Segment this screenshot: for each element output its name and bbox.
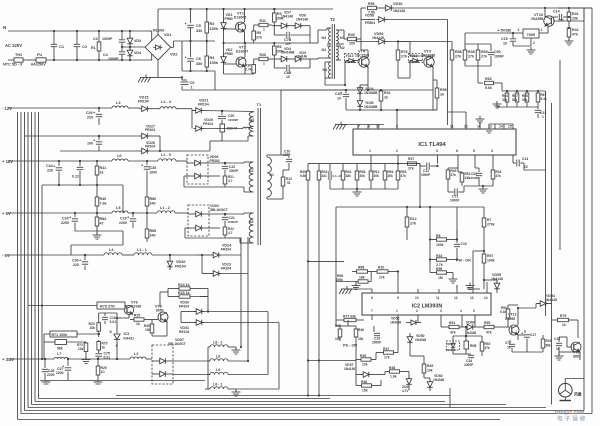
resistor R24 [168, 283, 200, 290]
pin 15 [508, 124, 513, 129]
svg-text:N2: N2 [340, 46, 345, 50]
resistor R75 [97, 333, 108, 353]
resistor R39 [356, 354, 376, 367]
resistor R68 [352, 266, 372, 280]
pin 10 [376, 124, 380, 129]
resistor R52b [480, 336, 490, 356]
wire [508, 305, 536, 325]
resistor R45c [335, 324, 342, 341]
wire [150, 54, 152, 60]
resistor R64 [502, 90, 509, 107]
svg-text:R73 27K: R73 27K [100, 305, 115, 309]
diode VD53 [424, 374, 444, 391]
capacitor C17 [518, 330, 536, 352]
resistor R50 [500, 305, 510, 327]
transformer T1 winding N1 [267, 157, 274, 197]
pin 14 [499, 124, 504, 129]
capacitor C75 [95, 352, 110, 360]
wire [551, 103, 553, 304]
svg-text:R26: R26 [260, 53, 267, 57]
inductor L1-5 [158, 153, 176, 161]
svg-text:4.7V: 4.7V [402, 389, 409, 393]
resistor R56b [430, 267, 453, 280]
svg-text:6: 6 [456, 149, 458, 153]
svg-text:10000P: 10000P [228, 118, 238, 122]
svg-text:N2: N2 [322, 48, 327, 52]
svg-text:FR804: FR804 [365, 21, 375, 25]
wire [182, 40, 208, 71]
svg-text:N: N [3, 25, 6, 30]
svg-text:2SA958: 2SA958 [531, 17, 543, 21]
diode VD60 [465, 321, 481, 336]
wire [182, 86, 345, 90]
svg-text:1: 1 [542, 115, 544, 119]
svg-text:1: 1 [191, 86, 193, 90]
svg-text:10000P: 10000P [228, 220, 238, 224]
resistor R42a [341, 164, 351, 189]
wire [583, 8, 585, 411]
thermistor TH1 [3, 53, 23, 67]
wire [171, 41, 174, 47]
wire [160, 289, 208, 308]
wire [207, 297, 209, 313]
svg-text:51k: 51k [512, 98, 518, 102]
svg-text:6: 6 [371, 296, 373, 300]
svg-text:TH1: TH1 [15, 53, 22, 57]
svg-text:18k: 18k [359, 276, 365, 280]
resistor R60a [522, 90, 529, 107]
transistor VT12 [505, 313, 519, 336]
svg-text:1.8k: 1.8k [390, 375, 397, 379]
svg-text:100: 100 [349, 42, 355, 46]
zener ZD2 [385, 372, 412, 394]
svg-text:C34: C34 [46, 164, 53, 168]
svg-text:1N4048: 1N4048 [415, 338, 426, 342]
svg-text:R9: R9 [257, 31, 262, 35]
diode VD20 [192, 111, 243, 132]
svg-text:R11: R11 [260, 19, 266, 23]
svg-text:FR104: FR104 [221, 267, 231, 271]
svg-text:+ 5V: + 5V [2, 211, 11, 216]
resistor R76 [396, 40, 407, 78]
transistor VT2 E13007 [236, 46, 248, 68]
resistor R43 [317, 164, 327, 396]
wire [325, 62, 345, 85]
resistor R45 [348, 33, 362, 46]
diode VD7 [272, 11, 293, 29]
diode VD13 [345, 54, 359, 65]
wire [579, 352, 581, 360]
svg-text:1N4048: 1N4048 [446, 348, 457, 352]
diode VD21 [192, 99, 254, 114]
resistor R59 [433, 80, 447, 110]
capacitor C26 [86, 108, 102, 125]
resistor R28 [144, 320, 154, 337]
inductor L8-1b [205, 383, 236, 393]
diode VD37 [344, 360, 385, 378]
svg-text:3: 3 [436, 149, 438, 153]
wire [346, 109, 437, 111]
wire [116, 394, 450, 396]
pin 13 [488, 124, 495, 129]
svg-text:10k: 10k [335, 337, 341, 341]
svg-text:20k: 20k [374, 174, 380, 178]
svg-text:+ 3.3V: + 3.3V [2, 357, 14, 362]
svg-text:C6: C6 [196, 57, 201, 61]
label +5VSB [497, 28, 511, 33]
op-amp IC1 TL494 [353, 129, 516, 155]
wire [224, 42, 247, 64]
svg-text:12: 12 [454, 296, 458, 300]
svg-text:27k: 27k [401, 55, 407, 59]
svg-text:R10: R10 [378, 266, 384, 270]
svg-text:T2: T2 [330, 17, 336, 22]
diode VD58 [361, 14, 448, 126]
wire [24, 112, 26, 411]
net +5V [2, 211, 11, 216]
svg-text:R38: R38 [468, 50, 475, 54]
svg-text:VT12: VT12 [508, 313, 517, 317]
svg-text:.com: .com [573, 410, 585, 416]
wire [99, 313, 129, 327]
svg-text:+ 12V: + 12V [2, 159, 13, 164]
svg-text:R41: R41 [100, 166, 107, 170]
svg-text:2.7k: 2.7k [245, 68, 252, 72]
wire [157, 60, 159, 77]
svg-text:7: 7 [371, 309, 373, 313]
svg-text:VD58: VD58 [365, 14, 374, 18]
svg-text:VD60: VD60 [466, 321, 475, 325]
capacitor C1 [51, 31, 65, 60]
inductor L1-4 [148, 100, 177, 109]
wire [184, 161, 244, 187]
resistor R49 [422, 360, 433, 378]
capacitor C9 [181, 77, 195, 89]
diode VD27 [140, 125, 161, 139]
svg-text:10k: 10k [427, 369, 433, 373]
resistor R65b [476, 44, 487, 66]
svg-text:R44: R44 [436, 254, 442, 258]
wire [280, 90, 282, 155]
wire [34, 112, 36, 402]
svg-text:5.6k: 5.6k [300, 174, 306, 178]
resistor R63 [478, 77, 502, 90]
resistor R62 [464, 335, 477, 354]
resistor R72 [77, 342, 88, 356]
svg-text:N2: N2 [250, 118, 254, 122]
wire [559, 60, 561, 250]
resistor R38 [463, 44, 474, 66]
rectifier VD57 SBL1640CT [152, 338, 186, 384]
diode VD26 [60, 141, 210, 154]
pin 11b [436, 289, 440, 300]
wire [344, 61, 368, 87]
svg-text:1N4148: 1N4148 [281, 15, 293, 19]
diode VD31 [152, 315, 279, 336]
wire [336, 207, 457, 320]
capacitor C15 [501, 33, 531, 46]
pin 11 [450, 124, 454, 129]
svg-text:R57: R57 [487, 254, 493, 258]
pin 6 [456, 149, 458, 172]
resistor R69 [336, 272, 372, 284]
wire [502, 83, 546, 91]
resistor R38 [385, 366, 409, 379]
diode VD34 [357, 85, 378, 96]
wire [181, 70, 215, 90]
wire [8, 254, 104, 256]
wire [545, 91, 547, 316]
transformer T1 core [257, 102, 262, 245]
wire [158, 9, 333, 35]
svg-text:18k: 18k [346, 174, 352, 178]
svg-text:R84: R84 [100, 217, 107, 221]
svg-text:FW - OK: FW - OK [456, 259, 471, 263]
pin 5b [473, 309, 475, 327]
svg-text:RL206: RL206 [153, 29, 164, 33]
resistor R57 [473, 250, 495, 289]
resistor R52 [458, 172, 471, 186]
svg-text:PS - ON: PS - ON [343, 344, 357, 348]
svg-text:FR104: FR104 [145, 128, 155, 132]
pin 16 [476, 116, 485, 129]
svg-text:E13007: E13007 [236, 50, 248, 54]
svg-text:4: 4 [460, 309, 462, 313]
svg-text:100: 100 [87, 142, 93, 146]
wire [451, 124, 453, 126]
wire [456, 230, 458, 261]
svg-text:27k: 27k [451, 173, 457, 177]
svg-text:5.4k: 5.4k [541, 97, 547, 101]
wire [8, 358, 54, 360]
wire [492, 163, 494, 165]
resistor R27 [130, 314, 158, 327]
pin 6b [339, 286, 373, 300]
wire [173, 360, 210, 362]
svg-text:C14: C14 [553, 10, 560, 14]
svg-text:14: 14 [484, 296, 488, 300]
capacitor C32 [469, 168, 482, 186]
transistor VT9 8050 [567, 320, 581, 359]
svg-text:10: 10 [556, 347, 560, 351]
wire [333, 122, 384, 130]
wire [267, 312, 269, 375]
diode VD12 [409, 54, 423, 65]
svg-text:R68: R68 [358, 266, 364, 270]
wire [240, 239, 241, 241]
svg-text:L1 - 4: L1 - 4 [161, 100, 172, 104]
svg-text:VD4: VD4 [134, 51, 141, 55]
resistor R45b [446, 168, 458, 186]
svg-text:1N4048B: 1N4048B [364, 105, 378, 109]
svg-text:T1: T1 [257, 102, 262, 107]
svg-text:27k: 27k [455, 55, 461, 59]
svg-text:VD40: VD40 [176, 260, 186, 264]
svg-text:FR104: FR104 [221, 248, 231, 252]
svg-text:1000: 1000 [150, 171, 158, 175]
svg-text:7805: 7805 [527, 33, 535, 37]
svg-text:R25 1k: R25 1k [178, 291, 190, 295]
svg-text:13: 13 [470, 296, 474, 300]
svg-text:7.6k: 7.6k [100, 202, 107, 206]
svg-text:86k: 86k [546, 344, 552, 348]
resistor R30 [245, 64, 256, 75]
diode VD35 [357, 94, 378, 110]
wire [27, 112, 29, 408]
svg-text:1: 1 [263, 62, 265, 66]
resistor R40b [95, 185, 106, 213]
wire [497, 104, 538, 107]
svg-text:R39: R39 [360, 354, 366, 358]
zener VD59 [446, 336, 460, 354]
transformer T2 winding N3 [322, 28, 332, 44]
inductor L1-1 [134, 248, 152, 255]
capacitor C31 [535, 107, 547, 119]
wire [236, 323, 279, 390]
svg-text:17k: 17k [384, 356, 390, 360]
svg-text:1k: 1k [440, 93, 444, 97]
capacitor C21 [209, 213, 244, 227]
net -12V [2, 106, 12, 111]
svg-text:1N4148: 1N4148 [393, 9, 405, 13]
svg-text:1N4148: 1N4148 [545, 298, 557, 302]
capacitor C50 [488, 44, 505, 66]
svg-text:VD1: VD1 [164, 33, 171, 37]
node N [3, 25, 6, 30]
svg-text:R80: R80 [150, 197, 157, 201]
wire [449, 388, 451, 408]
svg-text:C26: C26 [86, 111, 93, 115]
svg-text:2: 2 [396, 149, 398, 153]
svg-text:27k: 27k [468, 55, 474, 59]
resistor R26 [254, 53, 272, 66]
svg-text:C3198: C3198 [131, 305, 141, 309]
wire [39, 398, 331, 400]
svg-text:12k: 12k [362, 363, 368, 367]
svg-text:- 12V: - 12V [2, 106, 12, 111]
svg-text:13000P: 13000P [469, 176, 479, 180]
pin 8 [396, 109, 398, 129]
transistor VT3 2SC3198 [421, 50, 435, 68]
pin 7b [371, 309, 373, 320]
wire [71, 231, 123, 255]
wire [360, 39, 362, 50]
svg-text:R31: R31 [384, 91, 391, 95]
resistor R46 [354, 326, 364, 341]
svg-text:47k: 47k [401, 174, 407, 178]
svg-text:L1 - 5: L1 - 5 [161, 153, 171, 157]
svg-text:1N4148: 1N4148 [372, 36, 384, 40]
capacitor C15b [372, 326, 382, 345]
svg-text:8050: 8050 [156, 309, 164, 313]
svg-text:C2: C2 [82, 44, 88, 49]
svg-text:R56: R56 [368, 2, 375, 6]
svg-text:10k: 10k [572, 17, 578, 21]
svg-text:FR104: FR104 [198, 103, 209, 107]
rectifier VD06 FR302 [187, 155, 220, 184]
wire [28, 304, 126, 359]
diode VD54 [536, 294, 557, 308]
resistor R66 [512, 90, 519, 107]
watermark [555, 410, 587, 423]
svg-text:56k: 56k [57, 347, 63, 351]
capacitor C28 [42, 358, 55, 380]
svg-text:C1: C1 [59, 44, 65, 49]
svg-text:N1: N1 [270, 173, 274, 177]
pin 12 [448, 112, 468, 129]
svg-text:2200: 2200 [61, 221, 69, 225]
capacitor C19 [554, 337, 562, 352]
svg-text:2200: 2200 [119, 221, 127, 225]
transformer T2 winding N4 [323, 62, 332, 78]
svg-text:C30: C30 [72, 259, 79, 263]
transistor VT4 2SC3198 [355, 50, 369, 68]
pin 3 [436, 149, 438, 164]
svg-text:47k: 47k [485, 346, 491, 350]
wire [307, 359, 356, 361]
svg-text:C10: C10 [461, 242, 467, 246]
svg-text:1000P: 1000P [108, 57, 119, 61]
svg-text:KA431: KA431 [124, 337, 135, 341]
svg-text:270k: 270k [487, 223, 495, 227]
inductor L5 [112, 206, 128, 213]
ground [94, 381, 103, 385]
capacitor C5 [185, 21, 203, 41]
svg-text:11: 11 [436, 296, 440, 300]
svg-text:220: 220 [73, 263, 79, 267]
pin 2 [396, 149, 399, 165]
svg-text:10: 10 [337, 97, 341, 101]
resistor R5 [273, 8, 284, 26]
capacitor C22 [208, 162, 244, 176]
svg-text:1C: 1C [101, 370, 106, 374]
svg-text:R49: R49 [427, 364, 433, 368]
svg-text:10k: 10k [358, 337, 364, 341]
resistor R77 [336, 315, 364, 322]
diode VD30 [179, 301, 268, 316]
svg-text:1N4148: 1N4148 [344, 367, 355, 371]
diode VD6 [287, 14, 310, 29]
capacitor C40 [335, 89, 349, 110]
svg-text:100: 100 [558, 19, 564, 23]
resistor R36 [355, 164, 365, 189]
svg-text:22: 22 [524, 165, 528, 169]
resistor R6 [273, 42, 284, 59]
svg-text:1N4148: 1N4148 [390, 321, 401, 325]
transformer T1 winding N2 [222, 112, 254, 142]
svg-text:6A/250V: 6A/250V [31, 63, 46, 67]
svg-text:150k: 150k [210, 27, 219, 31]
svg-text:10: 10 [507, 346, 511, 350]
svg-text:1k: 1k [100, 171, 104, 175]
resistor R55 [481, 321, 505, 335]
wire [68, 358, 130, 360]
svg-text:R8: R8 [436, 234, 440, 238]
svg-text:R29 47: R29 47 [227, 127, 238, 131]
svg-text:R40: R40 [100, 197, 107, 201]
svg-text:47k: 47k [572, 33, 578, 37]
resistor R73 [97, 302, 125, 309]
pin 14b [484, 289, 488, 300]
ground [560, 397, 572, 401]
svg-text:电子误修: 电子误修 [557, 415, 587, 423]
diode VD52 [390, 317, 421, 326]
capacitor C8B [274, 59, 310, 79]
svg-text:- 5V: - 5V [2, 253, 10, 258]
svg-text:1000P: 1000P [372, 341, 382, 345]
capacitor C7B [274, 26, 310, 46]
net +12V [2, 159, 13, 164]
